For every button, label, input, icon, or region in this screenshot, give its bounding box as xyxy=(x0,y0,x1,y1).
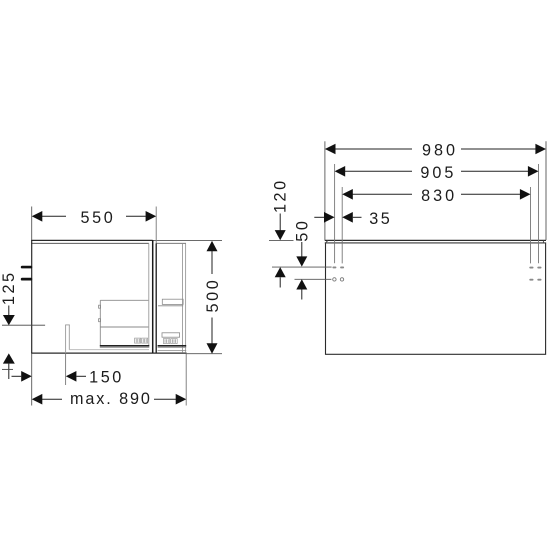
dim 50 arrow up (tip at row2) xyxy=(296,279,307,289)
dim 50 arrow down (tip at row1) xyxy=(296,256,307,266)
dim 550 line xyxy=(42,215,66,217)
svg-text:120: 120 xyxy=(272,178,290,213)
dim 980 arrow right xyxy=(535,144,546,155)
drawer back clip upper xyxy=(99,305,101,308)
drawer front outer line xyxy=(185,243,187,352)
dim 980 extension right xyxy=(545,141,547,240)
dim 35 left tail xyxy=(314,216,324,218)
dim 905 arrow left xyxy=(335,166,346,177)
dim 125 foot tick xyxy=(2,368,13,370)
dim 905 arrow right xyxy=(528,166,539,177)
hole row2 extension line xyxy=(295,278,332,280)
carcass front edge dark line xyxy=(152,240,154,353)
dim 35 arrow right xyxy=(324,212,335,223)
back upstand panel left edge xyxy=(65,325,67,353)
front bracket lower line xyxy=(158,305,183,307)
hole centre line left-inner xyxy=(341,187,343,263)
hole row1 extension line xyxy=(272,266,332,268)
svg-text:905: 905 xyxy=(420,164,456,182)
dim 550 arrow left xyxy=(32,211,43,222)
carcass back (left) edge xyxy=(31,240,33,354)
carcass bottom edge xyxy=(31,352,186,354)
bottom panel top face line xyxy=(69,349,149,351)
dim 120 arrow up (tip at row1) xyxy=(275,267,286,277)
dim max890 extension left xyxy=(31,354,33,406)
hole slot row2 right-inner xyxy=(529,279,533,281)
countertop top line xyxy=(325,239,546,241)
125 extension line xyxy=(2,324,45,326)
drawer front inner line xyxy=(182,243,184,352)
svg-text:550: 550 xyxy=(80,209,115,227)
back upstand panel right edge xyxy=(68,325,70,350)
dim 150 left tail xyxy=(12,375,22,377)
dim 500 arrow down xyxy=(207,343,218,353)
carcass inner front face line xyxy=(148,243,150,345)
drawer slide block left xyxy=(135,338,141,343)
svg-text:max. 890: max. 890 xyxy=(70,390,152,408)
dim 50 upper tail xyxy=(301,242,303,257)
wall bracket lower xyxy=(21,278,32,281)
hole slot row1 right-outer xyxy=(537,267,541,269)
hole slot row1 left-inner xyxy=(340,267,344,269)
hole slot row2 right-outer xyxy=(537,279,541,281)
dim 125 arrow down xyxy=(3,315,15,325)
front rail thin line xyxy=(158,347,187,349)
dim 980 line xyxy=(335,148,412,150)
dim 980 extension left xyxy=(324,141,326,240)
hole centre line right-inner xyxy=(530,187,532,263)
countertop bottom line xyxy=(325,242,546,244)
front bottom thin line xyxy=(158,350,187,352)
dim 550 extension right xyxy=(155,207,157,244)
dim max890 extension right xyxy=(185,354,187,406)
dim 830 arrow left xyxy=(342,189,353,200)
top inner line right part xyxy=(156,242,186,244)
hole slot row1 left-outer xyxy=(332,267,336,269)
carcass top edge outer line xyxy=(31,239,152,241)
front slide hatch strip xyxy=(163,339,169,344)
svg-text:125: 125 xyxy=(0,270,18,305)
front rail thick line xyxy=(158,345,187,347)
front slide rect xyxy=(162,333,180,337)
hole circle row2 left-inner xyxy=(340,278,343,281)
svg-text:830: 830 xyxy=(421,187,457,205)
dim 905 line xyxy=(345,170,412,172)
door edge dark line xyxy=(155,243,157,352)
hole centre line right-outer xyxy=(538,164,540,263)
dim 550 extension left xyxy=(31,207,33,241)
dim 125 arrow up xyxy=(3,353,15,363)
svg-text:35: 35 xyxy=(369,210,392,228)
dim 35 arrow left xyxy=(342,212,353,223)
dim 125 lower tail xyxy=(8,364,10,379)
countertop left bevel xyxy=(326,240,328,243)
hole circle row2 left-outer xyxy=(333,278,336,281)
dim 125 upper tail xyxy=(8,306,10,316)
body rectangle xyxy=(326,243,546,354)
hole slot row1 right-inner xyxy=(529,267,533,269)
drawer mid line xyxy=(100,326,148,328)
drawer back clip lower xyxy=(99,319,101,322)
svg-text:150: 150 xyxy=(89,368,124,386)
dim 150 right tail xyxy=(76,375,86,377)
dim 830 line xyxy=(353,193,413,195)
countertop right end cap xyxy=(542,240,544,243)
svg-text:50: 50 xyxy=(294,218,312,241)
drawer rail thin line xyxy=(100,347,150,349)
dim 120 top extension line xyxy=(269,239,294,241)
dim 150 arrow left (tip at recess line) xyxy=(66,371,77,382)
dim 500 arrow up xyxy=(207,241,218,251)
carcass top edge inner line xyxy=(31,242,149,244)
front bracket rect xyxy=(162,299,183,304)
dim 120 upper tail xyxy=(279,214,281,232)
drawer top edge line xyxy=(100,299,148,301)
dim 120 arrow down (tip at top surface) xyxy=(275,230,286,240)
drawer back panel vertical xyxy=(99,300,101,345)
dim 120 lower tail xyxy=(279,277,281,287)
500 top extension line xyxy=(153,239,222,241)
500 bottom extension line xyxy=(187,353,222,355)
svg-text:980: 980 xyxy=(422,142,458,160)
dim 50 lower tail xyxy=(301,290,303,300)
slide block hatches xyxy=(136,339,146,343)
wall bracket upper xyxy=(21,266,32,269)
hole centre line left-outer xyxy=(334,164,336,263)
dim max890 arrow right xyxy=(176,394,187,405)
dim 150 arrow right (tip at back wall) xyxy=(21,371,32,382)
drawer rail thick line xyxy=(100,345,150,347)
svg-text:500: 500 xyxy=(204,278,222,313)
dim 35 right tail xyxy=(353,216,362,218)
dim 830 arrow right xyxy=(520,189,531,200)
dim 980 arrow left xyxy=(325,144,336,155)
dim 550 arrow right xyxy=(146,211,157,222)
dim 500 line xyxy=(211,251,213,275)
back upstand top cap xyxy=(65,324,70,326)
dim max890 arrow left xyxy=(32,394,43,405)
150 extension below (recess line) xyxy=(65,353,67,385)
dim max890 line xyxy=(42,398,62,400)
